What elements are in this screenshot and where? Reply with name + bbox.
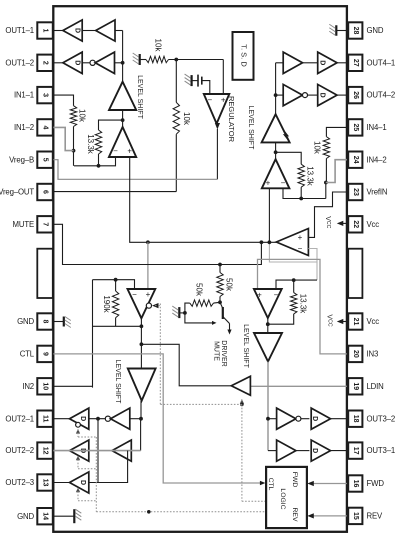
mute bubble D11	[76, 422, 81, 427]
wire pin10 IN2	[53, 385, 92, 387]
wire pin19 LDIN	[250, 385, 347, 387]
ground mute	[172, 306, 187, 318]
wire pin25 to 10k ch4	[326, 127, 347, 136]
svg-text:+: +	[298, 233, 303, 242]
resistor 190k	[112, 280, 118, 318]
left frame tab	[37, 249, 53, 298]
pin 14 GND	[17, 508, 53, 524]
wire Vreg-B line	[53, 160, 217, 180]
wire D26 to pin26	[337, 94, 347, 96]
wire row17 stub	[268, 450, 277, 452]
wire pin2 to driver	[53, 62, 63, 64]
wire Vcc arrow pin22	[337, 221, 347, 226]
wire amp3 minus line	[276, 278, 317, 289]
svg-text:OUT4–1: OUT4–1	[367, 58, 396, 67]
label LEVEL SHIFT ch3	[242, 324, 249, 368]
pin 21 Vcc	[348, 313, 379, 329]
wire D2 to bubble	[82, 62, 90, 64]
svg-text:−: −	[298, 244, 303, 253]
svg-text:28: 28	[352, 27, 359, 35]
label 10k top	[153, 39, 162, 53]
svg-text:19: 19	[352, 382, 359, 390]
svg-text:OUT4–2: OUT4–2	[367, 91, 396, 100]
right frame tab	[348, 249, 362, 298]
buffer A12 ch3	[277, 408, 296, 429]
svg-text:9: 9	[42, 352, 49, 356]
svg-text:T. S. D: T. S. D	[240, 44, 249, 67]
resistor 10k ch1	[70, 106, 76, 127]
svg-text:REGULATOR: REGULATOR	[227, 96, 236, 143]
svg-text:OUT2–2: OUT2–2	[5, 446, 34, 455]
pin 23 VrefIN	[348, 184, 387, 200]
svg-text:+: +	[146, 290, 151, 299]
svg-text:D: D	[319, 93, 326, 98]
svg-text:−: −	[281, 179, 286, 188]
svg-text:LEVEL SHIFT: LEVEL SHIFT	[114, 360, 121, 404]
wire pin4 IN1-2	[53, 127, 73, 150]
wire bubble to D18	[301, 418, 310, 420]
svg-text:26: 26	[352, 91, 359, 99]
svg-text:FWD: FWD	[367, 479, 385, 488]
wire ch3 riser	[266, 362, 270, 451]
wire row11 to row13	[97, 419, 99, 483]
wire D18 to pin18	[331, 418, 347, 420]
svg-text:11: 11	[42, 415, 49, 423]
svg-text:OUT1–1: OUT1–1	[5, 26, 34, 35]
svg-text:D: D	[74, 60, 81, 65]
wire pin16 FWD	[307, 481, 347, 486]
label 13.3k ch3	[299, 294, 308, 315]
svg-text:13.3k: 13.3k	[299, 294, 308, 315]
dotted rail ch2	[78, 437, 96, 512]
comparator buffer A7	[276, 229, 308, 256]
dotted mute to logic low	[96, 510, 266, 514]
wire pin1 to driver	[53, 30, 63, 32]
wire reg plus	[222, 60, 224, 95]
wire row1 to riser	[115, 30, 123, 32]
level shift LS2	[128, 369, 156, 401]
svg-text:50k: 50k	[194, 283, 203, 297]
svg-text:7: 7	[42, 222, 49, 226]
svg-text:GND: GND	[17, 317, 34, 326]
resistor 13.3k ch3	[291, 280, 297, 314]
svg-text:FWD: FWD	[291, 472, 298, 488]
svg-text:CTL: CTL	[267, 478, 274, 491]
pin 11 OUT2–1	[5, 411, 52, 427]
label DRIVER MUTE	[212, 340, 227, 366]
label 190k	[102, 295, 111, 313]
svg-text:+: +	[266, 179, 271, 188]
svg-text:LEVEL SHIFT: LEVEL SHIFT	[247, 106, 254, 150]
level shift LS3	[254, 333, 282, 362]
dotted arrow D12	[76, 455, 80, 468]
wire emitter arrow	[227, 324, 231, 335]
wire 13.3k ch3 bottom	[268, 314, 294, 324]
svg-text:D: D	[319, 60, 326, 65]
svg-text:27: 27	[352, 59, 359, 67]
wire amp3 out	[266, 318, 270, 333]
driver D1 OUT1-1	[63, 20, 82, 41]
wire 10k to node ch1	[72, 127, 76, 166]
svg-text:D: D	[79, 416, 86, 421]
bubble ch3	[296, 416, 301, 421]
svg-text:3: 3	[42, 93, 49, 97]
dotted arrow D11	[76, 429, 80, 437]
svg-text:21: 21	[352, 318, 359, 326]
node rail junctions	[146, 240, 271, 244]
svg-text:12: 12	[42, 447, 49, 455]
pin 5 Vreg–B	[9, 152, 53, 168]
inverter bubble ch4	[303, 93, 308, 98]
wire base arrow	[185, 313, 217, 325]
wire pin6 Vreg-OUT line	[53, 191, 176, 193]
wire amp4 plus riser	[268, 188, 270, 242]
label REGULATOR	[227, 96, 236, 143]
wire divider riser	[175, 60, 177, 103]
svg-text:REV: REV	[291, 508, 298, 522]
driver D11 OUT2-1	[70, 408, 89, 429]
op-amp A3 ch1	[109, 127, 136, 157]
pin 6 Vreg–OUT	[0, 184, 53, 200]
wire D11 node	[89, 417, 106, 421]
svg-text:MUTE: MUTE	[212, 341, 219, 361]
svg-text:Vcc: Vcc	[367, 317, 380, 326]
wire pin24 IN4-2	[326, 160, 347, 183]
wire A13 to D17	[296, 450, 310, 452]
svg-text:16: 16	[352, 480, 359, 488]
svg-text:Vreg–OUT: Vreg–OUT	[0, 188, 34, 197]
svg-text:5: 5	[42, 158, 49, 162]
wire regulator output arrow	[215, 123, 220, 179]
svg-text:IN3: IN3	[367, 349, 379, 358]
svg-text:IN4–2: IN4–2	[367, 155, 387, 164]
wire D17 to pin17	[331, 450, 347, 452]
wire row13 to row12	[89, 451, 128, 483]
wire A7 fb to ch3	[316, 262, 318, 280]
wire 10k mid to Vreg-OUT line	[175, 134, 177, 191]
label 10k mid	[182, 112, 191, 126]
inverter bubble ch1	[90, 60, 95, 65]
svg-text:D: D	[311, 416, 318, 421]
driver D13 OUT2-3	[70, 472, 89, 493]
dotted arrow D13	[76, 487, 80, 501]
svg-text:D: D	[74, 28, 81, 33]
resistor 50k base	[190, 300, 214, 306]
pin 17 OUT3–1	[348, 442, 395, 458]
label 13.3k ch1	[86, 134, 95, 155]
pin 10 IN2	[22, 378, 52, 394]
pin 18 OUT3–2	[348, 411, 395, 427]
svg-text:8: 8	[42, 320, 49, 324]
label LEVEL SHIFT ch1	[136, 75, 143, 119]
wire pin13	[53, 482, 69, 484]
regulator op-amp U1	[204, 94, 230, 124]
svg-text:15: 15	[352, 512, 359, 520]
pin 8 GND	[17, 313, 53, 329]
pin 24 IN4–2	[348, 152, 386, 168]
label 13.3k ch4	[305, 166, 314, 187]
node vreg divider	[169, 58, 224, 62]
inverting buffer A5 ch4	[283, 84, 302, 105]
wire 13.3k bottom ch1	[98, 154, 100, 166]
svg-text:10k: 10k	[153, 39, 162, 53]
wire IN3 gray	[258, 259, 347, 354]
label Vcc pin21	[326, 314, 333, 326]
pin 28 GND	[348, 22, 384, 38]
TSD box	[233, 32, 254, 80]
wire bubble to D26	[308, 94, 318, 96]
wire row2 to riser	[115, 62, 123, 64]
svg-text:−: −	[207, 96, 212, 105]
pin 20 IN3	[348, 346, 378, 362]
label 10k ch4	[312, 141, 321, 155]
resistor 13.3k ch4	[298, 164, 304, 187]
buffer A10 ch2	[112, 440, 131, 461]
wire riser ch4 row26	[276, 94, 283, 96]
svg-text:CTL: CTL	[20, 349, 35, 358]
inverter bubble ch2	[105, 416, 110, 421]
svg-text:13.3k: 13.3k	[86, 134, 95, 155]
wire 10k ch4 to node	[324, 159, 328, 199]
logic box	[266, 467, 307, 528]
ground pin8	[53, 317, 71, 328]
wire amp4 minus input	[283, 188, 326, 200]
svg-text:VCC: VCC	[326, 314, 333, 326]
wire pin11	[53, 418, 69, 420]
label 10k ch1	[77, 109, 86, 123]
inverting buffer A9 ch2	[111, 408, 130, 429]
wire pin15 REV	[307, 513, 347, 518]
svg-text:10k: 10k	[312, 141, 321, 155]
svg-text:−: −	[274, 291, 279, 300]
wire row18 stub	[268, 418, 277, 420]
svg-text:IN1–1: IN1–1	[14, 91, 34, 100]
wire Vcc arrow pin21	[337, 319, 347, 324]
label 50k collector	[225, 278, 234, 292]
svg-text:OUT1–2: OUT1–2	[5, 58, 34, 67]
wire 13.3k bottom ch4	[300, 187, 302, 198]
IC body outline	[53, 6, 347, 532]
svg-text:−: −	[113, 147, 118, 156]
wire rail drop to comp plus	[147, 242, 149, 289]
pin 16 FWD	[348, 475, 384, 491]
pin 1 OUT1–1	[5, 22, 52, 38]
svg-text:OUT3–2: OUT3–2	[367, 414, 396, 423]
svg-text:13.3k: 13.3k	[305, 166, 314, 187]
svg-text:OUT2–1: OUT2–1	[5, 414, 34, 423]
svg-text:IN2: IN2	[22, 382, 34, 391]
svg-text:13: 13	[42, 479, 49, 487]
svg-text:10: 10	[42, 382, 49, 390]
buffer A4 ch4	[283, 52, 302, 73]
svg-text:190k: 190k	[102, 295, 111, 313]
svg-text:VrefIN: VrefIN	[367, 188, 388, 197]
buffer A1	[96, 20, 115, 41]
svg-text:GND: GND	[367, 26, 384, 35]
pin 22 Vcc	[348, 216, 379, 232]
driver D26 OUT4-2	[318, 84, 337, 105]
pin 3 IN1–1	[14, 87, 53, 103]
wire ch4 row27 mid	[303, 62, 318, 64]
buffer A13 ch3	[277, 440, 296, 461]
op-amp A11 ch3	[254, 289, 282, 318]
pin 27 OUT4–1	[348, 55, 395, 71]
wire amp1 minus input	[74, 157, 116, 168]
svg-text:50k: 50k	[225, 278, 234, 292]
label 50k base	[194, 283, 203, 297]
dotted arrow LDIN	[240, 399, 244, 405]
svg-text:10k: 10k	[182, 112, 191, 126]
pin 2 OUT1–2	[5, 55, 52, 71]
wire 50k to collector	[214, 300, 222, 304]
resistor 13.3k ch1	[95, 130, 101, 154]
ground top-left	[133, 53, 146, 65]
node ch1 input riser	[121, 31, 125, 82]
svg-text:LDIN: LDIN	[367, 382, 384, 391]
wire LS2 out	[140, 401, 142, 419]
svg-text:VCC: VCC	[324, 216, 331, 228]
svg-text:20: 20	[352, 350, 359, 358]
wire row11 to row12	[140, 419, 142, 451]
label LEVEL SHIFT ch4	[247, 106, 254, 150]
wire row11 node	[130, 417, 143, 421]
wire amp1 plus riser	[130, 157, 277, 242]
driver D18 OUT3-2	[311, 408, 330, 429]
wire pin12 row	[53, 450, 140, 452]
svg-text:2: 2	[42, 61, 49, 65]
driver D27 OUT4-1	[318, 52, 337, 73]
wire comp output	[140, 318, 144, 368]
resistor 10k mid	[173, 102, 179, 134]
wire pin3 to 10k	[53, 95, 73, 106]
svg-text:4: 4	[42, 125, 49, 129]
driver D2 OUT1-2	[63, 52, 82, 73]
wire IN2 riser	[92, 280, 94, 388]
pin 12 OUT2–2	[5, 442, 52, 458]
svg-text:GND: GND	[17, 512, 34, 521]
svg-text:25: 25	[352, 124, 359, 132]
svg-text:10k: 10k	[77, 109, 86, 123]
wire riser ch4 row27	[276, 62, 283, 64]
pin 26 OUT4–2	[348, 87, 395, 103]
wire pin9 CTL	[53, 354, 265, 485]
svg-text:OUT2–3: OUT2–3	[5, 478, 34, 487]
svg-text:23: 23	[352, 188, 359, 196]
svg-text:+: +	[257, 291, 262, 300]
wire base network	[185, 303, 190, 313]
wire A7 feedback loop	[269, 242, 317, 262]
pin 19 LDIN	[348, 378, 383, 394]
svg-text:17: 17	[352, 447, 359, 455]
svg-text:OUT3–1: OUT3–1	[367, 446, 396, 455]
label LEVEL SHIFT ch2	[114, 360, 121, 404]
svg-text:22: 22	[352, 220, 359, 228]
pin 4 IN1–2	[14, 119, 53, 135]
driver D12 OUT2-2	[70, 440, 89, 461]
wire 13.3k tap ch1	[99, 120, 123, 130]
wire LS4 to amp4	[274, 142, 278, 159]
svg-text:+: +	[221, 96, 226, 105]
svg-text:LEVEL SHIFT: LEVEL SHIFT	[136, 75, 143, 119]
svg-text:REV: REV	[367, 511, 384, 520]
svg-text:IN1–2: IN1–2	[14, 123, 34, 132]
resistor 50k collector	[217, 273, 223, 303]
svg-text:14: 14	[42, 512, 49, 520]
pin 15 REV	[348, 508, 383, 524]
wire 13.3k tap ch4	[276, 152, 302, 164]
dotted mute comp branch	[155, 304, 242, 405]
svg-text:+: +	[127, 147, 132, 156]
ground pin28	[329, 24, 347, 36]
svg-text:D: D	[311, 448, 318, 453]
driver D17 OUT3-1	[311, 440, 330, 461]
node ch4 input riser	[274, 63, 278, 114]
svg-text:Vreg–B: Vreg–B	[9, 155, 34, 164]
label Vcc pin22	[324, 216, 331, 228]
svg-text:IN4–1: IN4–1	[367, 123, 387, 132]
wire comp minus loop	[93, 278, 135, 289]
svg-text:18: 18	[352, 415, 359, 423]
pin 25 IN4–1	[348, 119, 386, 135]
wire mute line pin7	[53, 224, 261, 266]
wire 190k bottom	[93, 318, 142, 327]
inverting buffer A2	[95, 52, 114, 73]
capacitor C1	[198, 75, 202, 87]
wire LS1 to amp1	[121, 110, 125, 127]
wire D27 to pin27	[337, 62, 347, 64]
svg-text:6: 6	[42, 190, 49, 194]
wire cap to reg minus	[202, 81, 210, 94]
svg-text:Vcc: Vcc	[367, 220, 380, 229]
pin 9 CTL	[20, 346, 53, 362]
wire D1 input	[82, 30, 96, 32]
dotted node LDIN	[240, 403, 244, 502]
resistor 10k top	[146, 56, 169, 62]
level shift LS4	[262, 114, 290, 142]
svg-text:−: −	[132, 290, 137, 299]
mute comparator A8	[128, 289, 156, 318]
wire 50k top	[219, 265, 221, 273]
level shift LS1	[109, 82, 136, 110]
op-amp A6 ch4	[262, 159, 290, 188]
pin 7 MUTE	[13, 216, 53, 232]
pin 13 OUT2–3	[5, 474, 52, 490]
svg-text:24: 24	[352, 156, 359, 164]
wire LDIN out	[141, 344, 231, 386]
dotted to logic high	[242, 500, 266, 502]
wire pin23 VrefIN	[308, 192, 347, 237]
svg-text:MUTE: MUTE	[13, 220, 35, 229]
buffer A14 LDIN	[231, 376, 250, 395]
svg-text:D: D	[79, 480, 86, 485]
svg-text:DRIVER: DRIVER	[220, 340, 227, 366]
svg-text:1: 1	[42, 29, 49, 33]
ground pin14	[53, 509, 81, 523]
transistor Q1	[220, 302, 230, 323]
resistor 10k ch4	[323, 137, 329, 159]
svg-text:LOGIC: LOGIC	[279, 488, 286, 509]
ground regulator	[185, 74, 198, 86]
mute input bubble	[146, 303, 158, 308]
svg-text:LEVEL SHIFT: LEVEL SHIFT	[242, 324, 249, 368]
